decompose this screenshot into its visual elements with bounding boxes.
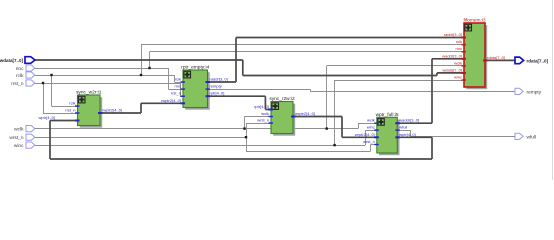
svg-text:rwptr2[4..0]: rwptr2[4..0] <box>161 98 181 103</box>
svg-text:wrst_n: wrst_n <box>9 135 23 141</box>
svg-text:raddr[3..0]: raddr[3..0] <box>210 77 228 82</box>
svg-text:rclk: rclk <box>16 73 24 79</box>
svg-text:rptr_empty:i4: rptr_empty:i4 <box>181 65 209 71</box>
svg-text:sync_r2w:i2: sync_r2w:i2 <box>269 96 295 102</box>
svg-text:rptr[4..0]: rptr[4..0] <box>254 104 269 109</box>
svg-text:rdata[7..0]: rdata[7..0] <box>487 55 505 60</box>
svg-text:rempty: rempty <box>210 84 222 89</box>
svg-text:wrst_n: wrst_n <box>257 118 269 123</box>
svg-text:raddr[3..0]: raddr[3..0] <box>444 32 462 37</box>
svg-text:wclk: wclk <box>14 127 24 133</box>
svg-text:wfull: wfull <box>399 125 407 130</box>
svg-text:fifomem:i3: fifomem:i3 <box>463 18 485 24</box>
svg-text:rinc: rinc <box>456 46 462 51</box>
svg-text:wptr[4..0]: wptr[4..0] <box>39 115 55 120</box>
svg-text:rclk: rclk <box>69 101 75 106</box>
svg-text:winc: winc <box>454 75 462 80</box>
svg-text:winc: winc <box>367 125 375 130</box>
svg-text:wclk: wclk <box>454 60 462 65</box>
svg-text:wclk: wclk <box>367 118 375 123</box>
svg-text:rdata[7..0]: rdata[7..0] <box>527 58 549 63</box>
svg-text:wptr[4..0]: wptr[4..0] <box>399 132 415 137</box>
svg-text:rclk: rclk <box>175 77 181 82</box>
svg-text:wrptr2[4..0]: wrptr2[4..0] <box>355 132 375 137</box>
svg-text:rclk: rclk <box>456 39 462 44</box>
svg-text:rinc: rinc <box>175 84 181 89</box>
svg-text:wdata[7..0]: wdata[7..0] <box>0 58 23 63</box>
svg-text:wfull: wfull <box>527 134 537 140</box>
svg-text:rrst_n: rrst_n <box>11 81 24 87</box>
svg-text:wrst_n: wrst_n <box>363 139 375 144</box>
svg-text:rwptr2[4..0]: rwptr2[4..0] <box>102 108 122 113</box>
svg-text:wrptr2[4..0]: wrptr2[4..0] <box>295 111 315 116</box>
svg-text:waddr[3..0]: waddr[3..0] <box>442 53 462 58</box>
svg-text:rrst_n: rrst_n <box>171 91 181 96</box>
svg-text:rempty: rempty <box>527 89 542 95</box>
svg-text:rptr[4..0]: rptr[4..0] <box>210 91 225 96</box>
svg-text:wptr_full:i5: wptr_full:i5 <box>376 112 399 118</box>
svg-text:rinc: rinc <box>16 66 24 72</box>
svg-text:wdata[7..0]: wdata[7..0] <box>442 67 462 72</box>
svg-text:waddr[3..0]: waddr[3..0] <box>399 118 419 123</box>
svg-text:winc: winc <box>14 143 24 149</box>
svg-text:sync_w2r:i1: sync_w2r:i1 <box>76 90 102 96</box>
svg-text:rrst_n: rrst_n <box>65 108 75 113</box>
svg-text:wclk: wclk <box>261 111 269 116</box>
